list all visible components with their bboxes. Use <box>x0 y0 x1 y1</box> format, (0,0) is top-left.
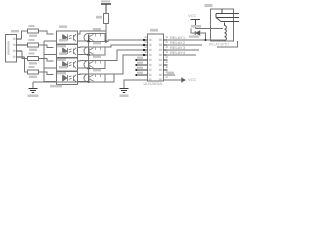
svg-text:VCC: VCC <box>188 77 197 82</box>
relay contact NO <box>216 18 239 22</box>
optocoupler U4 labels <box>50 66 67 88</box>
ground rail wire <box>33 74 114 82</box>
ground wire left <box>32 82 34 89</box>
node Q2 emitter dot <box>87 54 89 56</box>
ground symbol left <box>29 89 38 93</box>
resistor R4 label <box>29 76 37 78</box>
wire Q4 output to IC pin4 <box>105 55 144 74</box>
power VCC relay label <box>188 13 197 18</box>
IC U5 box <box>148 34 164 81</box>
relay coil <box>225 23 227 41</box>
relay contact NC <box>216 14 239 18</box>
resistor R4 <box>28 70 54 75</box>
IC U5 left pin number marks <box>145 36 147 53</box>
power port VCC right <box>181 78 186 83</box>
wire Q1 output to IC pin1 <box>105 40 144 42</box>
IC U5 right pin stubs 12-10 <box>164 60 168 70</box>
optocoupler U3 <box>57 58 78 71</box>
wire R5 to node <box>105 24 107 42</box>
net RELAY3 label <box>170 45 186 50</box>
ground mid label <box>120 94 129 97</box>
wire pin1 to R1 <box>22 31 28 39</box>
optocoupler U4 <box>57 72 78 85</box>
relay coil stub top <box>211 28 224 30</box>
node diode junction dot <box>205 39 207 41</box>
optocoupler U1 <box>57 31 78 44</box>
connector P1 inner text <box>8 38 16 58</box>
power symbol VCC top <box>101 4 111 14</box>
resistor R1 label <box>29 35 37 37</box>
ground symbol mid <box>120 89 129 93</box>
node IC pin4 dot <box>143 54 145 56</box>
transistor Q4 label <box>93 69 101 72</box>
resistor R2 designator label <box>29 39 35 41</box>
resistor R2 <box>28 43 54 48</box>
optocoupler U2 labels <box>57 39 67 61</box>
wire net RELAY1 <box>167 39 210 41</box>
transistor Q2 label <box>93 42 101 45</box>
connector P1 label <box>11 30 19 32</box>
wire relay bottom right <box>217 41 238 47</box>
resistor R5 label <box>96 16 102 19</box>
wire Q2 output to IC pin2 <box>105 45 144 47</box>
diode D1 label <box>191 25 201 28</box>
optocoupler U2 LED <box>63 48 77 55</box>
IC U5 pin numbers left column <box>149 39 152 81</box>
relay coil stub bottom <box>211 39 225 41</box>
node Q1 emitter dot <box>87 40 89 42</box>
transistor Q1 label <box>93 28 101 31</box>
IC U5 left pin stub 8 <box>135 74 147 76</box>
emitter wire U4 <box>78 81 89 83</box>
optocoupler U3 labels <box>57 52 67 74</box>
optocoupler U2 <box>57 45 78 58</box>
IC U5 label <box>150 29 158 32</box>
cathode wire U1 <box>44 40 56 42</box>
cathode wire U2 <box>44 54 56 56</box>
IC U5 right pin number marks <box>166 36 168 78</box>
resistor R2 label <box>29 49 37 51</box>
transistor Q2 <box>84 47 105 55</box>
IC U5 right pin 11 label <box>167 72 174 74</box>
transistor Q3 label <box>93 55 101 58</box>
collector wire U1 <box>78 31 107 34</box>
relay RELAY1 label <box>205 4 213 7</box>
wire VCC to relay coil <box>196 28 211 30</box>
power VCC right label <box>188 77 197 82</box>
diode D1 cathode wire <box>201 33 206 40</box>
cathode wire U3 <box>44 67 56 69</box>
IC U5 right pin stubs 16-13 <box>164 40 168 55</box>
emitter wire U2 <box>78 54 89 56</box>
resistor R1 designator label <box>29 25 35 27</box>
emitter wire U1 <box>78 40 89 42</box>
power symbol VCC relay <box>191 20 201 29</box>
node IC pin3 dot <box>143 49 145 51</box>
IC U5 left pin stub 5 <box>135 59 147 61</box>
ground left label <box>28 94 39 97</box>
node Q3 emitter dot <box>87 67 89 69</box>
wire Q3 output to IC pin3 <box>105 50 144 61</box>
resistor R5 <box>104 14 109 24</box>
IC U5 pin 7 net label <box>137 67 143 69</box>
IC U5 left pin stub 7 <box>135 69 147 71</box>
cathode wire U4 <box>44 81 56 83</box>
wire pin3 to R3 <box>22 51 27 59</box>
IC U5 pin 8 net label <box>137 72 143 74</box>
resistor R4 designator label <box>29 66 35 68</box>
IC U5 right pin 11 wire <box>164 74 176 76</box>
optocoupler U1 labels <box>57 25 67 47</box>
wire pin4 to R4 <box>25 57 28 72</box>
resistor R3 label <box>29 62 37 64</box>
svg-text:RELAY-SPDT: RELAY-SPDT <box>209 42 229 46</box>
diode D1 value label <box>189 35 199 37</box>
connector pin stubs <box>17 39 28 57</box>
optocoupler U3 LED <box>63 61 77 68</box>
diode D1 anode wire <box>191 29 195 34</box>
wire IC pin9 to ground <box>124 80 148 89</box>
diode D1 <box>195 31 200 35</box>
node R5 junction dot <box>105 40 107 42</box>
resistor R3 designator label <box>29 53 35 55</box>
IC U5 part number label <box>144 82 163 86</box>
node IC pin1 dot <box>143 39 145 41</box>
transistor Q1 <box>84 34 105 42</box>
IC U5 pin 5 net label <box>137 57 143 59</box>
svg-text:VCC: VCC <box>188 13 197 18</box>
connector P1 <box>6 35 17 63</box>
transistor Q4 <box>84 74 105 82</box>
node Q4 emitter dot <box>87 81 89 83</box>
relay RELAY1 box <box>211 9 234 41</box>
net RELAY1 label <box>170 35 186 40</box>
collector wire U2 <box>78 46 89 49</box>
wire net RELAY3 <box>167 49 199 51</box>
relay contact common <box>216 9 239 14</box>
power VCC top label <box>101 0 110 2</box>
IC U5 left pin stub 6 <box>135 64 147 66</box>
resistor R3 <box>28 57 54 62</box>
svg-text:ULN2803A: ULN2803A <box>144 82 163 86</box>
optocoupler U1 LED <box>63 34 77 41</box>
net RELAY4 label <box>170 50 186 55</box>
svg-text:RELAY4: RELAY4 <box>170 50 186 55</box>
node IC pin2 dot <box>143 44 145 46</box>
collector wire U3 <box>78 60 89 63</box>
IC U5 pin 6 net label <box>137 62 143 64</box>
emitter bus wire <box>88 41 90 82</box>
relay RELAY1 type label <box>209 42 229 46</box>
IC U5 pin numbers right column <box>159 39 162 81</box>
net RELAY2 label <box>170 40 186 45</box>
IC U5 left pin stubs 1-4 <box>144 40 148 55</box>
collector wire U4 <box>78 73 89 76</box>
cathode ground rail <box>43 41 45 82</box>
resistor R1 <box>28 29 54 34</box>
transistor Q3 <box>84 61 105 69</box>
emitter wire U3 <box>78 67 89 69</box>
wire net RELAY4 <box>167 54 196 56</box>
wire IC pin10 COM to VCC <box>164 79 183 81</box>
optocoupler U4 LED <box>63 75 77 82</box>
wire net RELAY2 <box>167 44 202 46</box>
